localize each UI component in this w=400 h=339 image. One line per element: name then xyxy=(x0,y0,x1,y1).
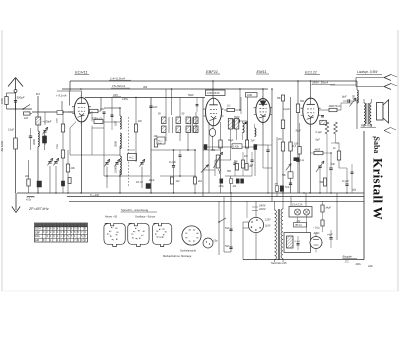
svg-text:5: 5 xyxy=(133,234,134,236)
svg-text:3: 3 xyxy=(161,237,162,239)
wire vertical x203 xyxy=(202,98,204,197)
wire ECL plate out xyxy=(319,109,342,111)
svg-text:2: 2 xyxy=(254,107,255,109)
svg-text:0,1µF: 0,1µF xyxy=(295,241,301,243)
trimmer left small xyxy=(43,130,46,132)
wire det horiz c xyxy=(203,169,215,171)
resistor R-ant 1000 xyxy=(5,97,8,105)
svg-text:0,1µF: 0,1µF xyxy=(169,160,176,164)
wire rail x290 xyxy=(290,97,292,193)
tone switch arrow xyxy=(350,98,357,107)
wire ECH bottom slant xyxy=(70,122,76,129)
resistor 1M0 box xyxy=(246,93,258,98)
switch S-ant xyxy=(7,108,33,110)
trimmer T1 xyxy=(48,161,51,163)
resistor 1M xyxy=(24,112,31,115)
svg-text:9 —10k: 9 —10k xyxy=(90,193,100,197)
resistor ECL extra xyxy=(337,151,340,160)
wire osc horizontal low xyxy=(92,127,104,129)
resistor rail c xyxy=(289,142,292,151)
svg-text:242r: 242r xyxy=(367,265,373,268)
svg-text:5: 5 xyxy=(156,234,157,236)
svg-text:0,1µF: 0,1µF xyxy=(342,179,349,183)
svg-text:1000: 1000 xyxy=(0,98,4,104)
capacitor ECL small xyxy=(351,171,354,173)
capacitor blob c xyxy=(220,179,223,183)
wire EM bottom xyxy=(255,144,268,146)
svg-text:0,97: 0,97 xyxy=(113,120,117,126)
svg-text:Lautspr. 0,5W: Lautspr. 0,5W xyxy=(357,70,378,74)
resistor 50k ECL xyxy=(323,178,326,186)
capacitor blob right mid xyxy=(294,158,299,161)
capacitor rail d xyxy=(296,159,299,161)
wire rail x283 xyxy=(282,97,284,197)
svg-text:2: 2 xyxy=(117,239,118,241)
wire osc join xyxy=(104,121,120,123)
svg-text:6: 6 xyxy=(190,230,191,232)
svg-text:1: 1 xyxy=(198,238,199,240)
svg-text:4: 4 xyxy=(158,237,159,239)
wire output top xyxy=(330,84,356,86)
svg-text:1M: 1M xyxy=(24,116,29,120)
wire det top xyxy=(239,89,241,110)
capacitor 5nF a xyxy=(229,228,232,230)
box H.C. xyxy=(128,154,137,161)
svg-text:Kristall W: Kristall W xyxy=(371,158,386,220)
svg-text:2: 2 xyxy=(203,109,204,111)
resistor zig b xyxy=(334,122,338,134)
wire riser ECH xyxy=(69,81,71,91)
EM11 eye wedge xyxy=(260,101,267,107)
coil osc chain xyxy=(120,116,121,129)
svg-text:9: 9 xyxy=(166,232,167,234)
capacitor 100pF xyxy=(149,105,152,107)
svg-text:171: 171 xyxy=(345,261,350,264)
trimmer osc 3 xyxy=(140,162,143,164)
wire osc riser b xyxy=(111,98,113,123)
capacitor 0,1uF psu xyxy=(297,243,300,245)
socket view 3 xyxy=(153,223,172,246)
rectifier box xyxy=(284,233,311,253)
svg-text:0,1µ: 0,1µ xyxy=(300,160,305,162)
capacitor osc b xyxy=(111,114,114,116)
svg-text:+4µF: +4µF xyxy=(327,234,333,237)
box BTL4 xyxy=(294,223,307,228)
resistor rail a xyxy=(281,120,284,129)
svg-text:20k: 20k xyxy=(137,120,143,123)
resistor below ECH xyxy=(94,120,103,124)
wires down left of PSU xyxy=(218,201,220,255)
svg-text:BTL4: BTL4 xyxy=(296,224,303,227)
svg-text:1: 1 xyxy=(164,235,165,237)
capacitor x197 xyxy=(196,98,198,105)
resistor 10k xyxy=(66,164,69,172)
svg-text:240v: 240v xyxy=(355,263,362,266)
svg-text:Meßaufnahme: Montage: Meßaufnahme: Montage xyxy=(163,254,192,258)
resistor EBF cathode xyxy=(219,140,222,148)
capacitor IF low xyxy=(179,154,182,156)
wire x241 vertical xyxy=(240,97,242,114)
svg-text:1k2: 1k2 xyxy=(176,180,181,183)
box 1,42k xyxy=(232,144,242,149)
svg-text:6µF: 6µF xyxy=(342,95,347,99)
tone control arrow xyxy=(318,165,321,167)
svg-text:4: 4 xyxy=(111,236,112,238)
svg-text:EM: EM xyxy=(35,239,39,242)
svg-text:135v: 135v xyxy=(122,97,129,101)
svg-text:4: 4 xyxy=(187,238,188,240)
bus 3 xyxy=(69,200,364,202)
svg-text:ECH: ECH xyxy=(35,228,40,231)
transformer Netztrafo xyxy=(275,210,277,259)
page edge left xyxy=(1,30,3,291)
svg-text:3: 3 xyxy=(190,241,191,243)
svg-text:7: 7 xyxy=(194,230,195,232)
svg-text:125V: 125V xyxy=(265,219,271,222)
wire x247 vertical xyxy=(247,97,249,140)
svg-text:ECL11: ECL11 xyxy=(305,70,317,75)
jack TA circle xyxy=(203,238,213,248)
svg-text:10µF: 10µF xyxy=(149,178,155,182)
svg-text:1000: 1000 xyxy=(57,117,59,123)
svg-text:2: 2 xyxy=(301,108,302,110)
capacitor blob b xyxy=(254,145,257,150)
wire out coupling xyxy=(330,152,339,154)
svg-text:2: 2 xyxy=(72,107,73,109)
svg-text:H.C.: H.C. xyxy=(129,156,134,160)
capacitor 40k xyxy=(27,179,30,186)
wire mid xyxy=(92,154,120,156)
trimmer osc 2 xyxy=(115,162,118,164)
prong small xyxy=(384,128,391,131)
svg-text:6µF: 6µF xyxy=(316,139,321,142)
column rule xyxy=(363,131,365,260)
wire riser ECH left ext xyxy=(61,101,63,112)
svg-text:10k+2%: 10k+2% xyxy=(95,118,103,120)
svg-text:Netztrafo 216: Netztrafo 216 xyxy=(271,261,287,265)
svg-text:3000: 3000 xyxy=(113,141,117,147)
svg-text:3: 3 xyxy=(113,239,114,241)
svg-text:7nF: 7nF xyxy=(158,143,162,145)
resistor 4k7 pair xyxy=(275,186,278,192)
rail 1,4-0,3mA xyxy=(70,80,357,82)
heater winding small xyxy=(287,236,294,248)
resistor det 5 xyxy=(241,160,244,168)
svg-text:ZF=487 kHz: ZF=487 kHz xyxy=(28,207,49,211)
svg-text:ECL: ECL xyxy=(35,235,40,238)
svg-text:±5–52mA: ±5–52mA xyxy=(112,84,125,88)
svg-text:8: 8 xyxy=(164,229,165,231)
wire IF feed xyxy=(171,89,173,115)
dial lamps box xyxy=(289,207,312,218)
svg-text:1.ZF±0,5kHz: 1.ZF±0,5kHz xyxy=(207,93,221,95)
resistor det small xyxy=(230,179,233,184)
svg-text:7: 7 xyxy=(136,228,137,230)
svg-text:0,1A 0,2A: 0,1A 0,2A xyxy=(292,204,303,207)
resistor small right of ECH xyxy=(57,111,63,115)
wire EM bottom 2 xyxy=(262,145,264,168)
rail 315 135V xyxy=(85,97,205,99)
wire det vertical g xyxy=(246,121,248,140)
svg-text:3: 3 xyxy=(137,238,138,240)
wire rail x277 xyxy=(276,137,278,197)
IF transformer ZF1b xyxy=(186,117,191,124)
resistor 4k05 xyxy=(314,151,323,154)
svg-text:10000: 10000 xyxy=(113,165,117,173)
resistor rail e xyxy=(296,104,299,113)
cathode loop below EBF xyxy=(209,129,215,137)
resistor psu right a xyxy=(321,205,324,212)
svg-text:Regl.: Regl. xyxy=(228,139,234,142)
resistor col a xyxy=(61,124,64,132)
resistor det 3 xyxy=(245,140,248,148)
svg-text:1M0: 1M0 xyxy=(247,93,253,97)
svg-text:Baujahr: Baujahr xyxy=(343,255,354,259)
voltage selector xyxy=(248,217,263,232)
psu wires misc xyxy=(242,222,244,260)
trimmer osc 1 xyxy=(105,162,108,164)
resistor AE 1000 xyxy=(14,138,18,149)
capacitor trimmer input xyxy=(43,136,47,143)
wire osc top xyxy=(100,98,102,112)
svg-text:50pF: 50pF xyxy=(188,94,194,97)
resistor 4k2 xyxy=(193,177,196,184)
svg-text:110V: 110V xyxy=(265,224,271,227)
wire antenna down xyxy=(15,109,17,138)
svg-text:B.K: B.K xyxy=(36,92,40,96)
coil 500 field xyxy=(357,90,358,103)
svg-text:100: 100 xyxy=(153,106,158,109)
svg-text:7µF: 7µF xyxy=(251,141,256,143)
switch PSU left xyxy=(219,218,226,222)
page edge bottom xyxy=(2,290,398,292)
svg-text:1: 1 xyxy=(143,235,144,237)
svg-text:Sockelansicht: Sockelansicht xyxy=(180,248,196,252)
bus 2 xyxy=(67,196,364,198)
svg-text:50µF: 50µF xyxy=(296,131,302,133)
svg-text:4k2: 4k2 xyxy=(198,180,203,183)
svg-text:8: 8 xyxy=(198,233,199,235)
capacitor det right xyxy=(251,159,254,161)
antenna A1 xyxy=(8,78,16,87)
svg-text:30k: 30k xyxy=(143,85,148,89)
svg-text:6: 6 xyxy=(158,231,159,233)
trimmer T2 xyxy=(54,161,57,163)
svg-text:AE 1000: AE 1000 xyxy=(0,140,4,151)
capacitor EM xyxy=(266,149,269,151)
svg-text:315: 315 xyxy=(113,93,118,97)
resistor x69 lower xyxy=(68,178,71,184)
arrow agc xyxy=(286,164,291,171)
wire det horiz a xyxy=(203,149,221,151)
IF transformer ZF1 xyxy=(165,89,167,117)
svg-text:5nF: 5nF xyxy=(285,185,290,189)
svg-text:500pF: 500pF xyxy=(17,96,25,100)
svg-text:AZ11: AZ11 xyxy=(313,231,321,235)
svg-text:LSp: LSp xyxy=(213,240,218,243)
capacitor dark xyxy=(37,181,42,187)
svg-text:1,4–0,3mA: 1,4–0,3mA xyxy=(110,76,125,80)
svg-text:9: 9 xyxy=(118,232,119,234)
capacitor blob a xyxy=(204,145,207,150)
bus chassis 1 xyxy=(17,192,364,194)
svg-text:2: 2 xyxy=(140,238,141,240)
svg-text:280V, 30mA: 280V, 30mA xyxy=(311,81,328,85)
coil choke ECL xyxy=(320,120,327,124)
resistor rail top xyxy=(282,95,285,101)
svg-text:0,1: 0,1 xyxy=(227,104,231,108)
wire vertical x209 xyxy=(208,122,210,193)
svg-text:Saba: Saba xyxy=(372,137,381,154)
svg-text:4: 4 xyxy=(133,238,134,240)
capacitor 0,1 det xyxy=(227,108,235,111)
capacitor 30pF xyxy=(90,109,99,112)
svg-text:5nF: 5nF xyxy=(225,245,230,248)
resistor col b xyxy=(61,150,64,158)
svg-text:Oszillator ~Schutz: Oszillator ~Schutz xyxy=(135,215,156,218)
svg-text:=100pF: =100pF xyxy=(43,120,52,124)
page edge right xyxy=(397,30,399,291)
svg-text:7: 7 xyxy=(160,229,161,231)
svg-text:Sprechtr.- anordnung: Sprechtr.- anordnung xyxy=(121,208,149,212)
capacitor 5nF b xyxy=(229,246,232,248)
IF transformer ZF3 xyxy=(228,119,232,130)
svg-text:8: 8 xyxy=(139,231,140,233)
symbol Y det xyxy=(218,169,220,172)
svg-text:4k05: 4k05 xyxy=(315,148,321,152)
dashed gang line xyxy=(128,117,130,186)
psu bottom rail xyxy=(243,259,364,261)
resistor zig a xyxy=(325,122,329,134)
wire grid lead xyxy=(32,111,73,113)
resistor osc c xyxy=(134,124,137,132)
svg-text:400Ω 5mA: 400Ω 5mA xyxy=(329,105,341,108)
IF bottom link xyxy=(151,149,196,151)
box Ha1 7nF xyxy=(157,137,165,144)
speaker LS xyxy=(377,103,384,121)
svg-text:1: 1 xyxy=(117,235,118,237)
svg-text:9: 9 xyxy=(144,231,145,233)
wire rail x272 xyxy=(271,89,273,202)
svg-text:10k: 10k xyxy=(71,166,76,170)
svg-text:ECH11: ECH11 xyxy=(75,70,88,75)
output transformer Tr2 xyxy=(364,103,366,125)
socket view round xyxy=(182,226,201,245)
svg-text:7: 7 xyxy=(112,227,113,229)
svg-text:±4µF: ±4µF xyxy=(326,207,332,210)
resistor 10k right xyxy=(154,139,157,147)
svg-text:10µµ: 10µµ xyxy=(57,143,59,149)
table Messwerte xyxy=(35,223,88,242)
svg-text:5: 5 xyxy=(222,109,223,111)
rail 15-52mA xyxy=(62,88,268,90)
svg-text:±25µ: ±25µ xyxy=(219,186,225,188)
svg-text:3000: 3000 xyxy=(32,139,36,145)
svg-text:5nF: 5nF xyxy=(331,162,336,166)
svg-text:EBF: EBF xyxy=(35,231,40,234)
wire osc riser c xyxy=(135,98,137,163)
svg-text:2: 2 xyxy=(163,237,164,239)
wire column x63 xyxy=(62,112,64,193)
resistor 50k agc xyxy=(288,172,293,178)
socket view 1 xyxy=(104,223,125,246)
svg-text:220V: 220V xyxy=(258,207,267,211)
resistor rail b xyxy=(281,142,284,151)
resistor 7k4 det xyxy=(245,164,248,171)
resistor 1k2 xyxy=(170,177,173,184)
svg-text:0,1µF: 0,1µF xyxy=(8,130,15,132)
speaker terminal prongs xyxy=(384,75,391,78)
svg-text:0,1µF: 0,1µF xyxy=(316,131,323,134)
svg-text:5: 5 xyxy=(108,234,109,236)
capacitor 5nF ECL xyxy=(329,167,332,169)
svg-text:5: 5 xyxy=(319,108,320,110)
svg-text:+ 8,1mA: + 8,1mA xyxy=(56,94,67,98)
resistor 400 ECL xyxy=(298,147,301,155)
svg-text:EM11: EM11 xyxy=(257,69,267,74)
choke below EBF right xyxy=(243,123,245,133)
socket view 2 xyxy=(128,223,149,246)
svg-text:6: 6 xyxy=(135,231,136,233)
IF transformer ZF2 box xyxy=(206,90,226,96)
svg-text:– 0,1µ: – 0,1µ xyxy=(312,227,320,230)
svg-text:8: 8 xyxy=(117,228,118,230)
wire det y147 xyxy=(203,146,257,148)
svg-text:10 nF: 10 nF xyxy=(136,180,143,184)
svg-text:5nF: 5nF xyxy=(225,227,230,230)
bottom border line xyxy=(356,261,364,263)
resistor psu right b xyxy=(321,220,324,226)
svg-text:5: 5 xyxy=(187,233,188,235)
junction dots xyxy=(37,192,38,193)
svg-text:6: 6 xyxy=(110,231,111,233)
capacitor blob d xyxy=(236,179,239,183)
capacitor col c xyxy=(61,181,64,186)
resistor 180k det xyxy=(235,164,238,171)
capacitor 50pF ECL xyxy=(321,115,324,117)
arrow TA xyxy=(201,165,209,173)
svg-text:1,42k: 1,42k xyxy=(233,145,240,148)
coil L2 winding xyxy=(38,131,39,147)
wires det bottom xyxy=(225,175,252,177)
svg-text:4,7µ: 4,7µ xyxy=(26,198,32,202)
svg-text:Ra=7kΩ: Ra=7kΩ xyxy=(361,124,373,128)
svg-text:Heizer ~50: Heizer ~50 xyxy=(105,215,118,218)
capacitor 50pF det xyxy=(237,119,239,122)
svg-text:0,1µF: 0,1µF xyxy=(283,107,290,111)
svg-text:2: 2 xyxy=(194,241,195,243)
junction knot xyxy=(104,175,150,177)
svg-text:EBF11: EBF11 xyxy=(206,69,218,74)
svg-text:±0µ: ±0µ xyxy=(352,189,357,192)
wire EM link xyxy=(268,144,272,146)
capacitor ECH bottom left xyxy=(29,135,32,137)
wire det horiz b xyxy=(215,159,231,161)
wire rail x298 xyxy=(297,81,299,193)
ground symbol xyxy=(15,193,17,203)
capacitor det 4 xyxy=(233,162,236,164)
coil L1 hatched xyxy=(36,117,41,125)
svg-text:5: 5 xyxy=(89,107,90,109)
volume pot 50k xyxy=(216,155,220,168)
coil small below EM xyxy=(255,128,256,136)
wire long vertical xyxy=(150,98,152,194)
